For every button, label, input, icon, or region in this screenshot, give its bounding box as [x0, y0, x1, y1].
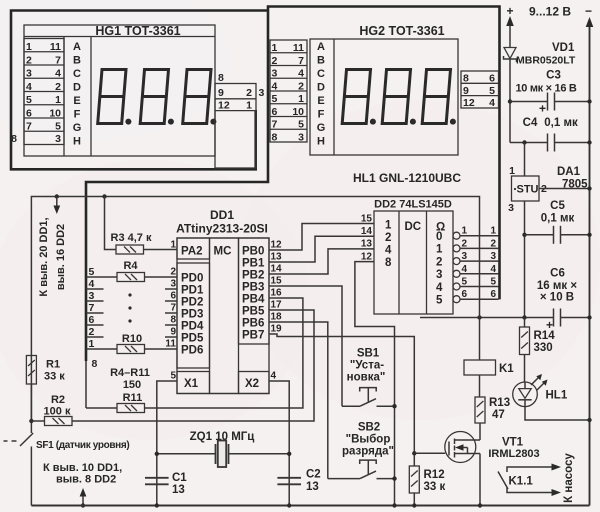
svg-text:H: H [73, 136, 81, 148]
ground bottom rail [31, 505, 589, 507]
svg-text:−: − [585, 4, 592, 18]
svg-text:9: 9 [463, 85, 469, 97]
svg-text:6: 6 [462, 289, 468, 300]
wire: PB0 pin12 to DD2 pin15 [269, 224, 374, 251]
wire: PB3 pin15 down to SB1 [269, 286, 342, 406]
MOSFET VT1 IRML2803 [445, 432, 540, 463]
svg-text:ATtiny2313-20SI: ATtiny2313-20SI [176, 222, 268, 236]
svg-text:5: 5 [170, 371, 176, 382]
svg-text:HG2 TOT-3361: HG2 TOT-3361 [359, 24, 444, 38]
svg-text:9: 9 [170, 327, 176, 338]
svg-text:6: 6 [89, 314, 95, 326]
node: HL1 on ground rail [587, 418, 591, 422]
svg-text:X1: X1 [184, 378, 199, 390]
svg-text:D: D [317, 82, 325, 94]
svg-text:PB1: PB1 [242, 258, 265, 270]
svg-text:12: 12 [218, 100, 230, 112]
DD2 input pin numbers [361, 214, 373, 263]
segment bus vertical with net stubs [86, 266, 104, 408]
DD1 left pin numbers [165, 240, 176, 382]
svg-text:C4: C4 [523, 117, 538, 129]
svg-text:0: 0 [436, 231, 442, 243]
svg-text:DD2 74LS145D: DD2 74LS145D [374, 199, 452, 211]
svg-text:К выв. 10 DD1,: К выв. 10 DD1, [43, 462, 122, 474]
svg-text:7: 7 [298, 55, 304, 67]
LED HL1 [513, 374, 568, 407]
plus input wire with up arrow [506, 16, 514, 48]
svg-text:K1.1: K1.1 [509, 476, 534, 488]
svg-text:7: 7 [272, 119, 278, 131]
HG1 right pin box (digit cathode pins) [215, 72, 256, 168]
svg-text:PB7: PB7 [242, 330, 264, 342]
svg-text:5: 5 [489, 85, 495, 97]
svg-text:5: 5 [272, 93, 278, 105]
DD1 left pin stubs PD1-PD5 [165, 289, 177, 337]
relay coil K1 [464, 318, 514, 398]
svg-text:К выв. 20 DD1,: К выв. 20 DD1, [38, 217, 50, 296]
svg-text:C2: C2 [306, 469, 321, 481]
wire: PB1 pin13 to DD2 pin14 [269, 236, 374, 262]
svg-text:3: 3 [272, 68, 278, 80]
wire: PB6 pin18 down to SB2 [269, 322, 328, 479]
svg-text:11: 11 [293, 42, 304, 54]
svg-text:3: 3 [298, 131, 304, 143]
svg-text:1: 1 [298, 93, 304, 105]
node: +5V at DA1/R14 branch [522, 315, 526, 319]
pushbutton SB1 Ustanovka [342, 348, 395, 407]
svg-text:PD5: PD5 [181, 333, 204, 345]
node: VCC label arrow junction [53, 194, 60, 214]
svg-text:3: 3 [508, 202, 514, 214]
svg-text:3: 3 [26, 68, 32, 80]
node: crystal left / C1 [155, 452, 159, 456]
wire: VT1 drain up to R13 [479, 423, 481, 440]
svg-text:1: 1 [170, 240, 176, 251]
svg-text:MC: MC [214, 246, 232, 258]
svg-text:4: 4 [462, 264, 468, 275]
svg-text:5: 5 [55, 121, 61, 133]
svg-text:10: 10 [49, 107, 61, 119]
MCU DD1 ATtiny2313-20SI [176, 208, 269, 394]
svg-text:1: 1 [509, 165, 515, 177]
minus input wire with up arrow (ground rail top) [586, 17, 594, 506]
svg-text:2: 2 [246, 87, 252, 99]
svg-text:PA2: PA2 [181, 246, 203, 258]
svg-text:X2: X2 [245, 378, 259, 390]
svg-text:4: 4 [298, 68, 304, 80]
svg-text:8: 8 [385, 257, 392, 269]
wire: DA1 pin3 output down [524, 201, 526, 318]
svg-text:G: G [73, 122, 82, 134]
svg-text:PB4: PB4 [242, 294, 265, 306]
label R4-R11 150 [110, 367, 150, 391]
HG2 seven-segment digit 1 [342, 70, 376, 125]
wire: R2 to PB5 sensor line [72, 310, 314, 421]
svg-text:1: 1 [246, 100, 252, 112]
node: C5 branch on +5 output [522, 233, 526, 237]
svg-text:новка": новка" [347, 372, 386, 384]
svg-text:12: 12 [463, 97, 475, 109]
svg-text:C: C [317, 68, 325, 80]
node: label arrow on ground rail [81, 503, 85, 507]
label: K vyv.20 DD1, vyv.16 DD2 (vertical) [38, 217, 67, 296]
svg-text:3: 3 [490, 251, 496, 262]
node: crystal right / C2 on X2 column [287, 452, 291, 456]
node: SB2 on ground column [392, 476, 396, 480]
svg-text:PD1: PD1 [181, 285, 204, 297]
svg-text:C3: C3 [546, 70, 561, 82]
wire: X2 pin4 to crystal right node [269, 381, 289, 506]
svg-text:4: 4 [489, 97, 495, 109]
svg-text:7: 7 [26, 121, 32, 133]
svg-text:2: 2 [272, 55, 278, 67]
node: SB1 on ground column [392, 404, 396, 408]
resistor R3 4.7k [105, 197, 178, 255]
capacitor C3 10u x 16V [510, 70, 590, 116]
HG1 display box [24, 24, 215, 156]
svg-text:E: E [73, 95, 80, 107]
svg-text:3: 3 [170, 279, 176, 290]
svg-text:12: 12 [271, 240, 283, 251]
svg-text:100 к: 100 к [44, 406, 71, 418]
wire: PB2 pin14 to DD2 pin13 [269, 249, 374, 274]
HG2 display box [310, 24, 458, 155]
svg-text:9...12 В: 9...12 В [529, 5, 571, 19]
wire: X1 pin5 to crystal left node [157, 381, 177, 506]
svg-text:150: 150 [123, 379, 141, 391]
HG2 right pin box (digit cathode pins) [461, 71, 499, 109]
svg-text:0,1 мк: 0,1 мк [541, 213, 575, 225]
svg-text:"Выбор: "Выбор [346, 434, 391, 446]
svg-text:1: 1 [55, 94, 61, 106]
HG1 left pin box (segment pins) [11, 39, 64, 146]
svg-text:16: 16 [271, 288, 283, 299]
svg-text:F: F [318, 109, 325, 121]
node: C4 on ground rail [587, 140, 591, 144]
resistor R2 100k [31, 394, 72, 426]
svg-text:1: 1 [436, 244, 443, 256]
svg-text:8: 8 [463, 73, 469, 85]
diode VD1 MBR0520LT [504, 42, 576, 67]
HG1 seven-segment digit 2 [140, 70, 174, 125]
pushbutton SB2 Vybor razryada [328, 422, 395, 479]
svg-text:2: 2 [170, 267, 176, 278]
svg-text:PD4: PD4 [181, 321, 204, 333]
svg-text:R1: R1 [46, 359, 60, 371]
+5V top rail (to pin 20 DD1 / pin 16 DD2) [31, 197, 479, 422]
svg-text:5: 5 [89, 266, 95, 278]
svg-text:SB2: SB2 [358, 422, 380, 434]
switch SF1 level sensor [4, 433, 130, 506]
svg-text:4: 4 [272, 80, 278, 92]
HG1 seven-segment digit 3 [183, 70, 217, 125]
segment/cathode bold bus loop around displays [86, 7, 500, 362]
svg-text:2: 2 [385, 232, 391, 244]
svg-text:47: 47 [492, 409, 505, 421]
svg-text:3: 3 [259, 87, 265, 99]
svg-text:8: 8 [170, 315, 176, 326]
node: C3 on ground rail [587, 99, 591, 103]
resistor R12 33k [409, 466, 445, 506]
+5V distribution wire below DD2 [420, 317, 554, 319]
svg-text:19: 19 [271, 324, 283, 335]
svg-text:1: 1 [272, 42, 278, 54]
svg-text:8: 8 [92, 358, 98, 370]
svg-text:2: 2 [462, 238, 468, 249]
svg-text:B: B [317, 55, 325, 67]
svg-text:HG1 TOT-3361: HG1 TOT-3361 [95, 24, 180, 38]
DD1 right pin numbers [271, 240, 283, 382]
svg-text:14: 14 [361, 226, 373, 237]
capacitor C5 0.1u [525, 200, 590, 244]
svg-text:2: 2 [55, 81, 61, 93]
svg-text:1: 1 [26, 41, 32, 53]
svg-text:6: 6 [26, 107, 32, 119]
resistor R13 47 [475, 397, 510, 423]
svg-text:4: 4 [271, 371, 277, 382]
svg-text:R4–R11: R4–R11 [110, 367, 150, 379]
svg-text:SB1: SB1 [357, 348, 380, 360]
svg-text:8: 8 [11, 133, 17, 145]
svg-text:5: 5 [462, 277, 468, 288]
svg-text:DC: DC [405, 221, 422, 233]
capacitor C6 16u x 10V [537, 268, 590, 333]
HG2 left pin box (segment pins) [270, 40, 307, 143]
svg-text:IRML2803: IRML2803 [488, 448, 539, 460]
svg-text:5: 5 [436, 295, 443, 307]
svg-text:H: H [317, 136, 325, 148]
svg-text:PB2: PB2 [242, 270, 264, 282]
svg-text:2: 2 [436, 256, 442, 268]
node: gate/R12 junction [412, 451, 416, 455]
svg-text:17: 17 [271, 300, 283, 311]
svg-text:SF1 (датчик уровня): SF1 (датчик уровня) [36, 440, 129, 451]
svg-text:5: 5 [490, 277, 496, 288]
svg-text:+: + [539, 102, 546, 116]
svg-text:330: 330 [534, 342, 553, 354]
svg-text:VD1: VD1 [552, 42, 575, 54]
svg-text:R3 4,7 к: R3 4,7 к [111, 232, 152, 244]
node: R1/R2/SF1 junction [29, 419, 33, 423]
svg-text:C: C [73, 68, 81, 80]
svg-text:6: 6 [170, 291, 176, 302]
svg-text:R12: R12 [424, 469, 445, 481]
wire: R11 to PB4 [145, 298, 303, 408]
svg-text:R4: R4 [123, 260, 138, 272]
svg-text:1: 1 [89, 338, 95, 350]
voltage regulator DA1 7805 [508, 165, 588, 214]
svg-text:PB0: PB0 [242, 246, 264, 258]
svg-text:4: 4 [490, 264, 496, 275]
svg-text:5: 5 [298, 119, 304, 131]
capacitor C1 13 [145, 472, 187, 496]
svg-text:33 к: 33 к [44, 371, 65, 383]
wire: + rail from VD1 down to C4 row [509, 59, 511, 143]
capacitor C2 13 [277, 469, 320, 494]
svg-text:HL1 GNL-1210UBC: HL1 GNL-1210UBC [353, 171, 461, 185]
svg-text:3: 3 [55, 133, 61, 145]
wire: DA1 pin2 to ground rail [539, 188, 590, 190]
decoder DD2 74LS145D [374, 199, 453, 315]
node: ground column on bottom rail [392, 503, 396, 507]
svg-text:1: 1 [462, 226, 468, 237]
svg-text:13: 13 [361, 239, 373, 250]
relay contact K1.1 [498, 464, 561, 497]
svg-text:4: 4 [436, 282, 443, 294]
node: +5V at K1 branch [477, 315, 481, 319]
wire: PB7 pin19 to gate node [269, 334, 414, 466]
svg-text:К насосу: К насосу [563, 453, 575, 503]
node: VT1 source on ground rail [478, 503, 482, 507]
svg-text:DA1: DA1 [557, 166, 581, 178]
node: C3 junction on + rail [508, 99, 512, 103]
ellipsis dots for R5-R9 [128, 293, 131, 322]
resistor R11 150 (net 8 to PB6) [86, 392, 145, 413]
svg-text:13: 13 [172, 484, 185, 496]
svg-text:R14: R14 [534, 330, 556, 342]
node: R3 branch on +5 rail [102, 194, 106, 198]
HG1 segment letter column A-H [64, 37, 91, 157]
svg-text:выв. 16 DD2: выв. 16 DD2 [55, 224, 67, 290]
svg-text:C1: C1 [172, 472, 187, 484]
svg-text:F: F [74, 109, 81, 121]
svg-text:2: 2 [26, 54, 32, 66]
quartz crystal ZQ1 10 MHz [157, 431, 289, 467]
resistor R1 33k [26, 356, 65, 434]
svg-text:A: A [73, 41, 81, 53]
svg-text:разряда": разряда" [342, 446, 394, 458]
svg-text:G: G [317, 122, 326, 134]
node: C5 on ground rail [587, 233, 591, 237]
svg-text:1: 1 [385, 220, 392, 232]
svg-text:R2: R2 [51, 394, 65, 406]
svg-text:HL1: HL1 [546, 390, 568, 402]
DD2 output pin numbers 1-6 [462, 226, 468, 301]
svg-text:3: 3 [436, 269, 442, 281]
HG1 seven-segment digit 1 [98, 70, 132, 125]
svg-text:0,1 мк: 0,1 мк [544, 117, 578, 129]
svg-text:5: 5 [26, 94, 32, 106]
node: C1 on ground rail [155, 503, 159, 507]
svg-text:MBR0520LT: MBR0520LT [516, 55, 576, 67]
svg-text:PB6: PB6 [242, 318, 264, 330]
capacitor C4 0.1u [523, 117, 590, 152]
svg-text:8: 8 [272, 131, 278, 143]
svg-text:4: 4 [89, 278, 95, 290]
svg-text:STU: STU [517, 184, 539, 196]
svg-text:13: 13 [271, 252, 283, 263]
svg-text:DD1: DD1 [210, 208, 234, 222]
svg-text:R11: R11 [123, 392, 143, 404]
svg-text:11: 11 [165, 339, 176, 350]
svg-text:7: 7 [89, 302, 95, 314]
svg-text:8: 8 [218, 72, 224, 84]
svg-text:E: E [317, 95, 324, 107]
svg-text:9: 9 [218, 87, 224, 99]
svg-text:PB3: PB3 [242, 282, 264, 294]
svg-text:4: 4 [26, 81, 32, 93]
svg-text:+: + [506, 4, 513, 18]
svg-text:18: 18 [271, 312, 283, 323]
display unit inner bold frame (HG1 group box) [11, 11, 268, 170]
HG2 segment letter column A-H [317, 39, 334, 155]
svg-text:A: A [317, 41, 325, 53]
svg-text:R10: R10 [122, 333, 142, 345]
svg-text:B: B [73, 55, 81, 67]
wire: HL1 cathode to ground rail [525, 407, 590, 420]
DD2 output bubbles and wires to cathode bundle [453, 232, 499, 303]
svg-text:PB5: PB5 [242, 306, 265, 318]
HG2 seven-segment digit 3 [422, 70, 456, 125]
svg-text:15: 15 [271, 276, 283, 287]
node: R12 on ground rail [412, 503, 416, 507]
svg-text:2: 2 [490, 238, 496, 249]
svg-text:2: 2 [298, 80, 304, 92]
svg-text:1: 1 [490, 226, 496, 237]
svg-text:R13: R13 [489, 397, 510, 409]
svg-text:PD0: PD0 [181, 273, 203, 285]
svg-text:D: D [73, 82, 81, 94]
svg-text:10 мк × 16 В: 10 мк × 16 В [515, 83, 576, 95]
svg-text:11: 11 [50, 41, 61, 53]
node: C6 on ground rail [587, 315, 591, 319]
resistor R10 150 [104, 333, 178, 354]
svg-text:выв. 8 DD2: выв. 8 DD2 [56, 474, 116, 486]
wire: gate wire to VT1 [414, 452, 445, 454]
wire: DD2 pin12 to ground column [355, 262, 395, 506]
wire: DA1 input drop [524, 143, 526, 177]
svg-text:PD3: PD3 [181, 309, 203, 321]
svg-text:2: 2 [89, 326, 95, 338]
node: DA1 pin2 on ground rail [587, 186, 591, 190]
svg-text:16 мк ×: 16 мк × [537, 280, 577, 292]
node: DA1 input branch [522, 140, 526, 144]
svg-text:VT1: VT1 [502, 437, 524, 449]
svg-text:13: 13 [306, 481, 319, 493]
svg-text:"Уста-: "Уста- [350, 360, 384, 372]
node: C2 on ground rail [287, 503, 291, 507]
svg-text:14: 14 [271, 264, 283, 275]
svg-text:4: 4 [385, 245, 392, 257]
svg-text:4: 4 [55, 68, 61, 80]
svg-text:PD2: PD2 [181, 297, 203, 309]
svg-text:7: 7 [170, 303, 176, 314]
wire: + rail corner to DA1 branch [510, 142, 548, 144]
svg-text:6: 6 [489, 73, 495, 85]
svg-text:C5: C5 [550, 200, 565, 212]
svg-text:6: 6 [272, 106, 278, 118]
cathode net numbers 1-6 [490, 226, 496, 301]
wire: VT1 source to ground rail [479, 454, 481, 506]
svg-text:3: 3 [462, 251, 468, 262]
HG2 seven-segment digit 2 [382, 70, 416, 125]
label: K vyv.10 DD1, vyv.8 DD2 [43, 462, 122, 506]
svg-text:3: 3 [89, 290, 95, 302]
svg-text:K1: K1 [499, 363, 514, 375]
svg-text:× 10 В: × 10 В [540, 292, 574, 304]
resistor R14 330 [520, 318, 556, 383]
svg-text:C6: C6 [550, 268, 565, 280]
resistor R4 150 [104, 260, 178, 282]
svg-text:33 к: 33 к [424, 481, 446, 493]
svg-text:PD6: PD6 [181, 345, 203, 357]
svg-text:7: 7 [55, 54, 61, 66]
svg-text:10: 10 [292, 106, 304, 118]
svg-text:6: 6 [490, 289, 496, 300]
